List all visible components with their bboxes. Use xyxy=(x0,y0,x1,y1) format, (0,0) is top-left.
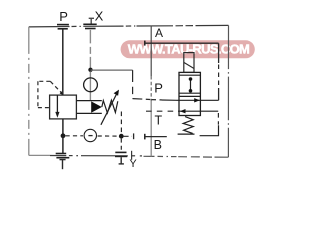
port X double bar xyxy=(83,24,96,28)
plug symbol below T port xyxy=(60,160,66,170)
wire wrap line down right of valve (dashed) xyxy=(217,113,219,125)
port B tick xyxy=(144,134,146,140)
port A tick xyxy=(144,41,146,46)
port Y double bar xyxy=(115,152,127,156)
wire B line xyxy=(145,136,167,138)
wire dashed right from Y node xyxy=(124,135,132,137)
svg-text:Y: Y xyxy=(129,158,137,170)
boundary step at x=131.6 xyxy=(131,151,133,160)
wire X line through orifice down to pilot poppet xyxy=(89,72,91,101)
valve open position path with dots xyxy=(190,79,192,91)
pilot spring zigzag xyxy=(102,100,118,113)
boundary left chain line xyxy=(28,27,30,156)
wire X pilot line down (gray dashed) xyxy=(89,30,91,70)
arrowhead on pilot dashed line xyxy=(60,91,63,95)
wire pilot branch corner down (dashed) xyxy=(132,70,134,98)
wire pilot branch to solenoid valve (dashed) xyxy=(133,98,151,101)
svg-text:B: B xyxy=(154,138,162,152)
watermark www.tau-rus.com xyxy=(121,40,255,58)
plug symbol below Y port xyxy=(119,157,124,164)
solenoid actuator box U1 xyxy=(184,53,194,73)
wire main valve down to T node xyxy=(62,119,64,136)
boundary bottom-left line xyxy=(29,154,142,157)
wire dashed gauge line to right xyxy=(66,135,84,137)
pilot spring adjustment arrow xyxy=(101,94,117,125)
wire pilot branch to right (gray) xyxy=(91,69,133,71)
node junction dot X line xyxy=(88,68,92,72)
wire wrap line bottom under spring xyxy=(178,133,195,135)
svg-text:P: P xyxy=(154,80,163,95)
gauge port circle xyxy=(84,129,96,141)
pilot poppet cone xyxy=(91,101,102,112)
svg-text:T: T xyxy=(155,113,163,127)
svg-text:A: A xyxy=(155,26,163,40)
port tick at left block boundary xyxy=(133,133,135,139)
plug symbol above X port xyxy=(89,18,94,24)
2/2 solenoid valve body xyxy=(179,72,200,115)
wire P down xyxy=(62,29,64,95)
svg-text:X: X xyxy=(95,9,104,24)
boundary bottom-right chain line xyxy=(144,155,229,158)
port P double bar xyxy=(57,25,69,29)
solenoid diagonal xyxy=(184,62,194,68)
wire dashed gauge line continued xyxy=(98,135,119,137)
node junction dot Y xyxy=(119,134,124,139)
main valve internal flow arrow xyxy=(56,95,58,112)
wire dashed up from Y node to pilot spring drain xyxy=(120,112,122,134)
wire dashed down from Y node to Y port xyxy=(120,139,122,153)
wire T flow line through valve xyxy=(146,110,176,112)
flow arrow right xyxy=(194,98,200,102)
svg-text:P: P xyxy=(59,9,68,24)
orifice circle on X line xyxy=(84,78,98,92)
boundary right chain line xyxy=(227,25,229,157)
node junction dot T xyxy=(61,133,66,138)
wire T node down to T port xyxy=(62,136,64,154)
port T double bar xyxy=(56,154,70,158)
boundary top chain line xyxy=(29,25,229,27)
solenoid valve return spring xyxy=(183,117,193,134)
pilot control dashed box left of main valve xyxy=(38,81,61,107)
pilot poppet seat channel xyxy=(76,101,101,114)
wire P flow line through valve xyxy=(177,99,219,101)
main relief valve body square xyxy=(50,95,77,119)
wire A line to right xyxy=(145,42,219,44)
boundary of solenoid-valve block (left edge, dashed gray) xyxy=(150,26,152,76)
flow arrow left xyxy=(180,109,186,113)
wire A line down to valve xyxy=(218,43,220,63)
